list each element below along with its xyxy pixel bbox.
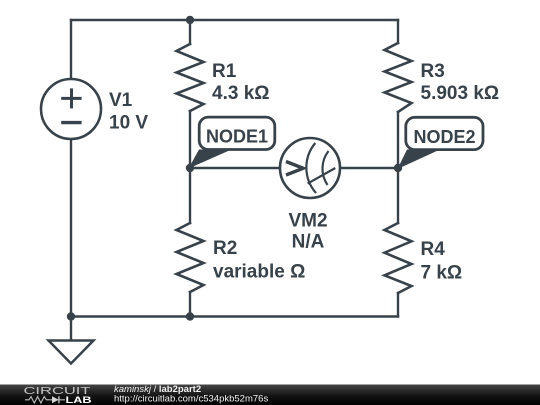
junction top node xyxy=(186,16,194,24)
wire node1 to voltmeter xyxy=(190,167,280,169)
svg-text:http://circuitlab.com/c534pkb5: http://circuitlab.com/c534pkb52m76s xyxy=(114,394,268,405)
junction node A (NODE1) xyxy=(186,164,194,172)
svg-text:7 kΩ: 7 kΩ xyxy=(421,263,463,284)
wire R4 bottom lead xyxy=(397,293,399,317)
svg-text:V1: V1 xyxy=(109,90,133,111)
junction node B (NODE2) xyxy=(394,164,402,172)
resistor R4 xyxy=(385,223,412,293)
voltage source V1 xyxy=(41,79,101,139)
wire R1 top lead xyxy=(189,20,191,44)
footer bar xyxy=(0,385,540,405)
svg-text:5.903 kΩ: 5.903 kΩ xyxy=(421,83,500,104)
label R2 value xyxy=(213,238,305,283)
junction bottom middle xyxy=(186,312,194,320)
wire V1 bottom to ground rail xyxy=(70,139,72,317)
svg-text:R4: R4 xyxy=(421,239,446,260)
wire top rail xyxy=(71,19,398,21)
resistor R3 xyxy=(385,43,412,112)
resistor R2 xyxy=(177,223,204,292)
svg-text:R1: R1 xyxy=(212,61,237,82)
label R3 value xyxy=(421,61,500,104)
label R4 value xyxy=(421,239,463,284)
svg-text:4.3 kΩ: 4.3 kΩ xyxy=(212,83,270,104)
wire right column R3-node-R4 xyxy=(397,112,399,223)
label V1 value xyxy=(109,90,148,134)
wire V1 top lead xyxy=(70,20,72,79)
wire bottom rail xyxy=(71,315,398,317)
ground xyxy=(49,317,94,364)
svg-text:R2: R2 xyxy=(213,238,237,259)
wire middle column R1-node-R2 xyxy=(189,111,191,223)
svg-text:NODE1: NODE1 xyxy=(206,127,268,147)
svg-text:LAB: LAB xyxy=(66,394,92,405)
svg-text:R3: R3 xyxy=(421,61,445,82)
wire R2 bottom lead xyxy=(189,292,191,317)
svg-text:NODE2: NODE2 xyxy=(413,127,475,147)
wire R3 top lead xyxy=(397,20,399,43)
resistor R1 xyxy=(177,44,204,111)
junction ground-left xyxy=(67,312,75,320)
wire voltmeter to node2 xyxy=(340,167,398,169)
label R1 value xyxy=(212,61,270,104)
node NODE1 callout xyxy=(189,117,275,168)
logo resistor-diode squiggle xyxy=(25,396,65,403)
svg-text:10 V: 10 V xyxy=(109,113,148,134)
svg-text:variable Ω: variable Ω xyxy=(213,262,305,283)
label VM2 value xyxy=(288,211,327,253)
svg-text:N/A: N/A xyxy=(292,232,325,253)
voltmeter U1 VM2 xyxy=(280,138,340,198)
node NODE2 callout xyxy=(398,117,484,169)
svg-text:VM2: VM2 xyxy=(288,211,327,232)
